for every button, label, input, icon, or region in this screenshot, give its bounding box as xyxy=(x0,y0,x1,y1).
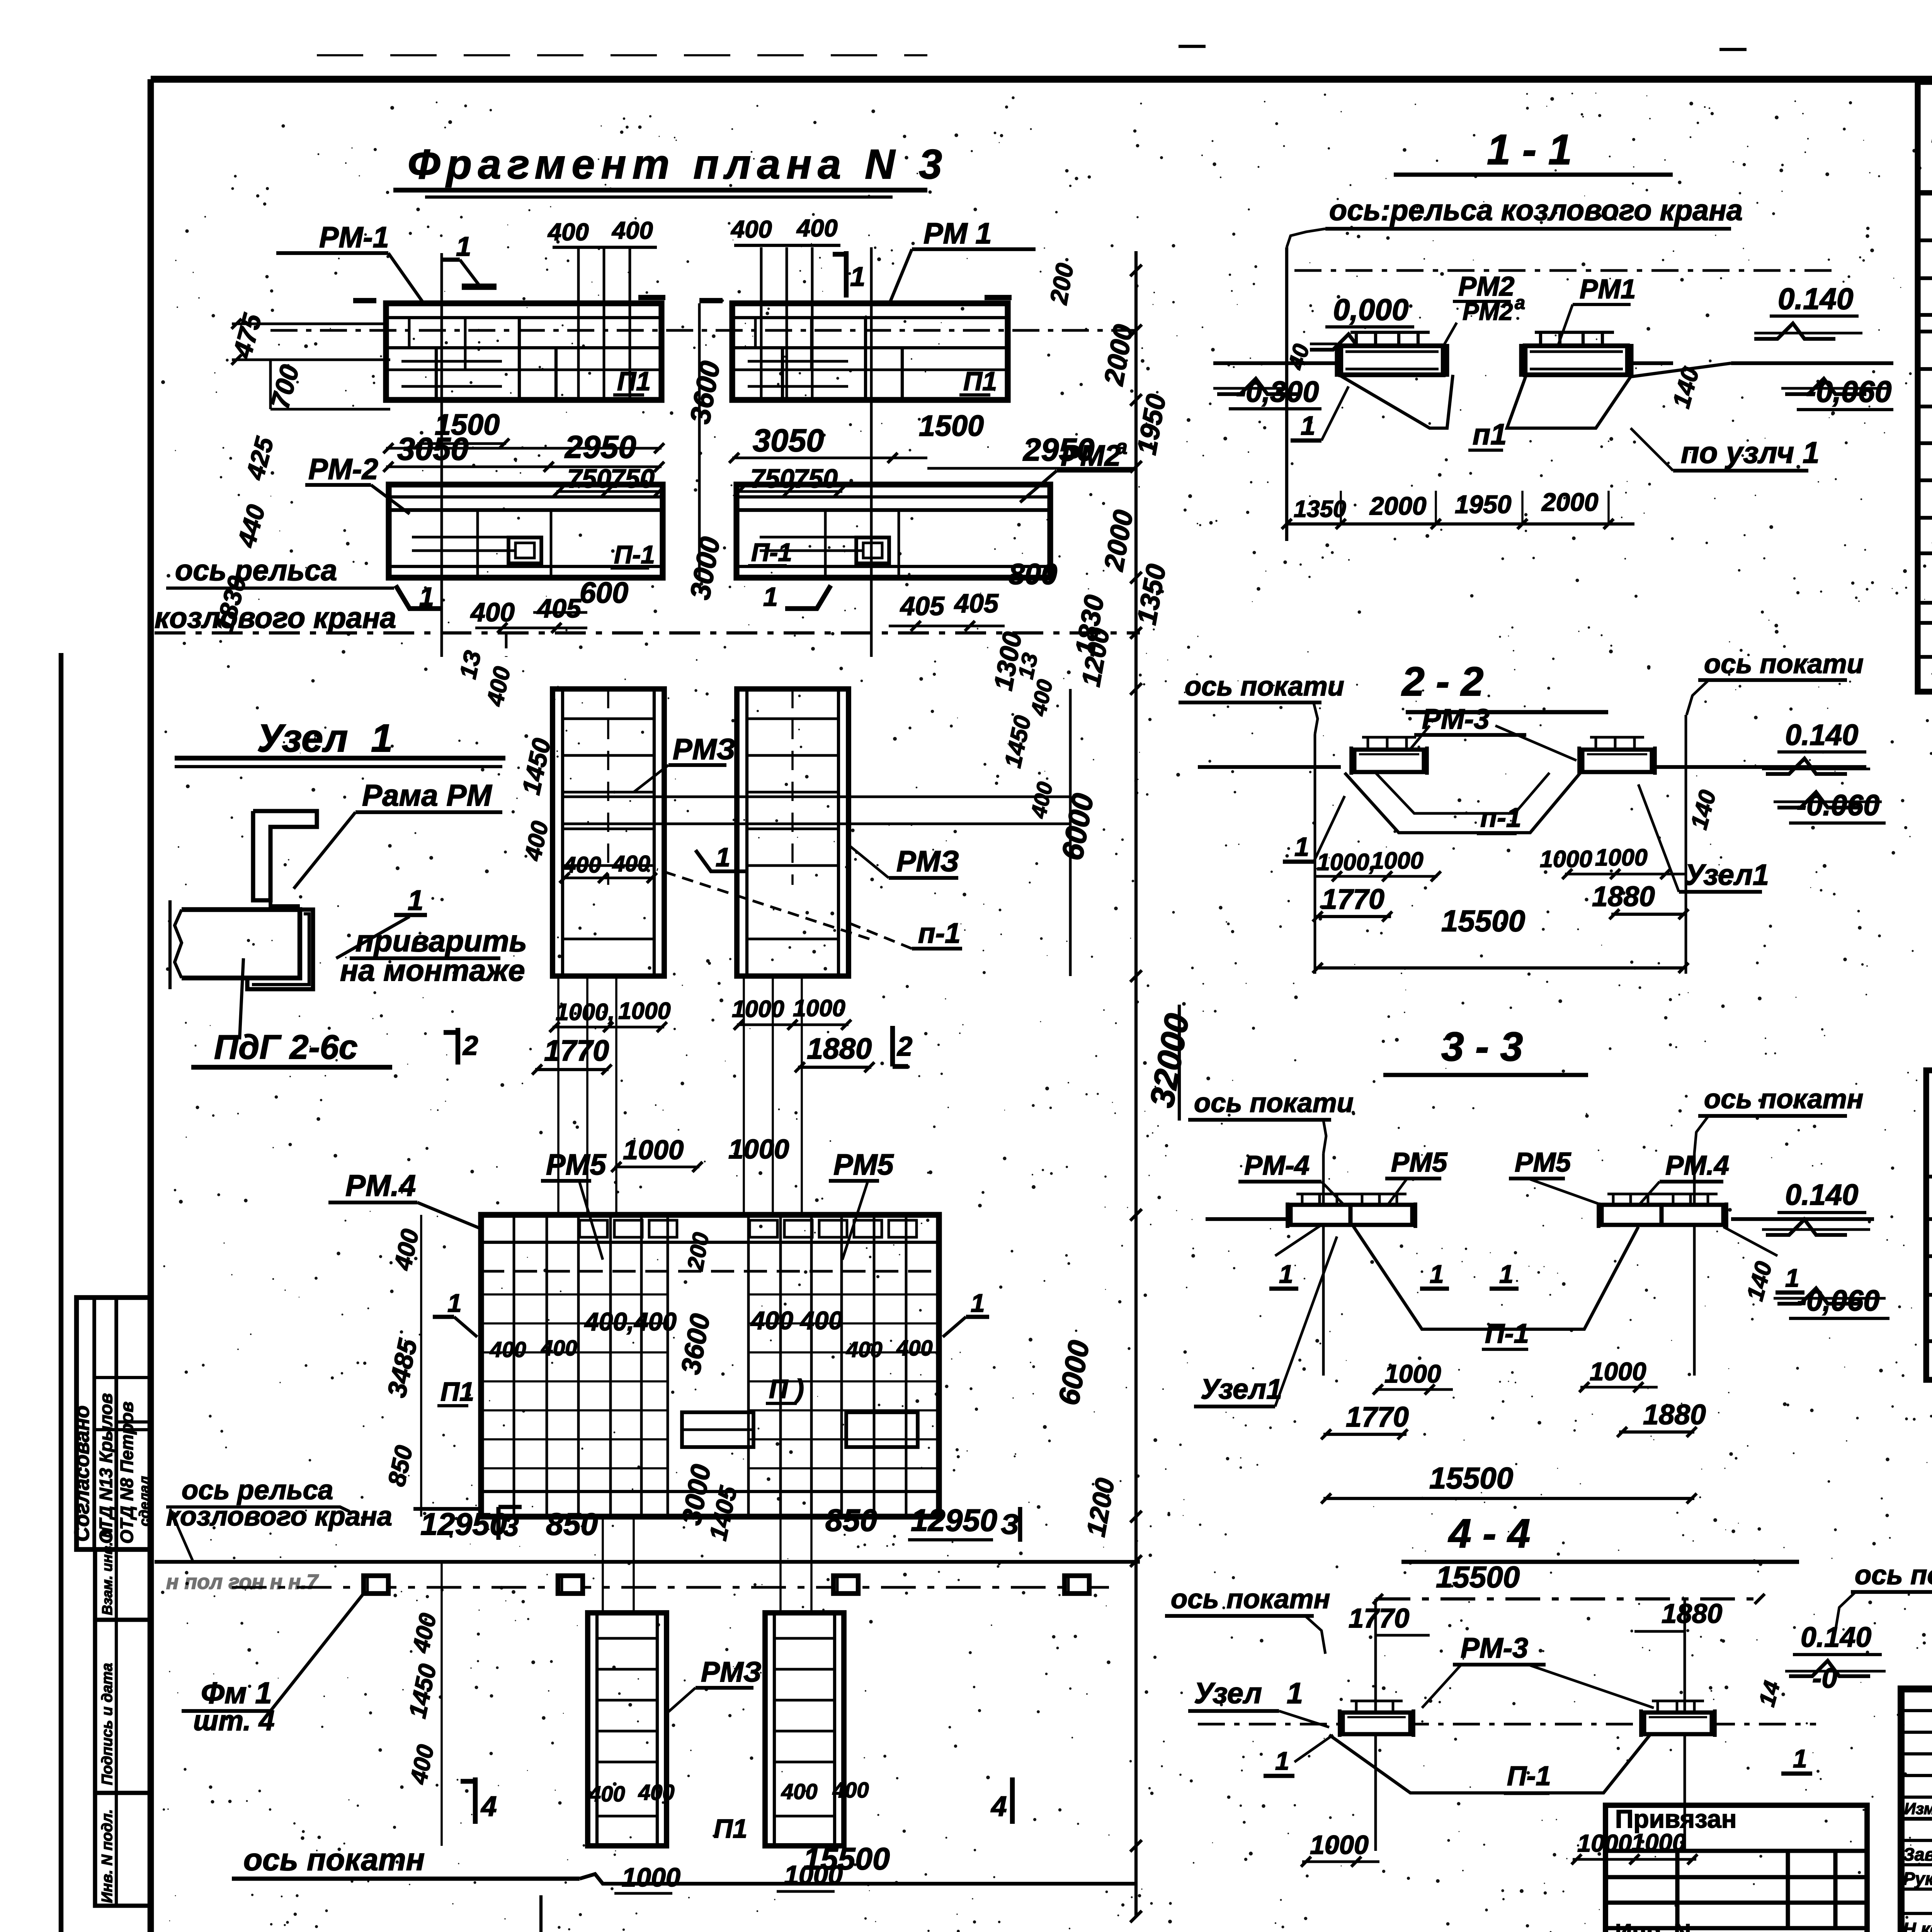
svg-text:РМ2: РМ2 xyxy=(1458,271,1514,301)
1-1 beams xyxy=(1341,346,1443,375)
svg-text:400 400: 400 400 xyxy=(750,1306,843,1335)
middle slab pair РМ3 xyxy=(553,689,664,976)
Узел 1: channel Рама РМ xyxy=(253,811,317,900)
svg-text:1: 1 xyxy=(1275,1747,1289,1775)
svg-text:п-1: п-1 xyxy=(918,917,961,949)
plan row1 left block РМ-1/П1 xyxy=(386,303,662,400)
2-2 axis verticals xyxy=(1314,734,1316,974)
svg-text:ОТД N13 Крылов: ОТД N13 Крылов xyxy=(96,1393,116,1544)
svg-text:на монтаже: на монтаже xyxy=(340,953,525,987)
1-1 bottom dims xyxy=(1287,522,1634,526)
svg-text:РМ1: РМ1 xyxy=(1580,274,1636,304)
svg-text:1000: 1000 xyxy=(1540,846,1592,872)
svg-text:Рама РМ: Рама РМ xyxy=(362,778,492,812)
svg-text:1880: 1880 xyxy=(1662,1598,1722,1629)
svg-text:400: 400 xyxy=(612,851,650,876)
svg-text:15500: 15500 xyxy=(1429,1461,1513,1495)
svg-text:600: 600 xyxy=(580,577,628,609)
svg-text:РМ-2: РМ-2 xyxy=(308,453,378,486)
svg-text:П1: П1 xyxy=(617,367,651,396)
ось рельса axis line + label xyxy=(155,631,1140,634)
vertical 6000 dim xyxy=(1069,689,1072,976)
svg-text:1000,: 1000, xyxy=(556,999,615,1025)
svg-text:Инв. N подл.: Инв. N подл. xyxy=(99,1809,116,1903)
svg-text:РМ-3: РМ-3 xyxy=(1461,1632,1528,1664)
svg-text:1 - 1: 1 - 1 xyxy=(1487,126,1572,173)
svg-text:-0,060: -0,060 xyxy=(1806,374,1891,408)
svg-text:2000: 2000 xyxy=(1369,492,1427,520)
svg-text:2000: 2000 xyxy=(1541,488,1599,516)
svg-text:400: 400 xyxy=(896,1336,933,1360)
svg-text:0.140: 0.140 xyxy=(1801,1621,1871,1653)
svg-text:850: 850 xyxy=(825,1503,877,1538)
svg-text:П-1: П-1 xyxy=(1485,1318,1529,1349)
svg-text:400: 400 xyxy=(730,216,772,243)
svg-text:0.140: 0.140 xyxy=(1785,1179,1858,1211)
svg-text:Узел: Узел xyxy=(257,716,348,760)
rail axis line bottom + anchors ФМ xyxy=(155,1560,1140,1564)
bottom slab pair П1/РМЗ xyxy=(588,1613,667,1846)
4-4 dash-dot level line xyxy=(1198,1723,1816,1726)
svg-text:1000: 1000 xyxy=(1384,1359,1441,1388)
svg-text:РМ2: РМ2 xyxy=(1061,440,1121,472)
svg-text:1000: 1000 xyxy=(728,1134,789,1164)
svg-text:400: 400 xyxy=(638,1780,675,1804)
svg-text:1880: 1880 xyxy=(1592,881,1655,912)
svg-text:1: 1 xyxy=(371,716,393,760)
svg-text:п1: п1 xyxy=(1473,418,1507,451)
2-2 beams xyxy=(1354,750,1424,772)
svg-text:3050: 3050 xyxy=(753,422,824,458)
3-3 pit outline xyxy=(1275,1225,1321,1256)
svg-text:З: З xyxy=(1001,1509,1019,1540)
svg-text:12950: 12950 xyxy=(911,1503,997,1538)
svg-text:-0,300: -0,300 xyxy=(1236,376,1319,408)
svg-text:1: 1 xyxy=(1294,832,1309,862)
svg-text:400: 400 xyxy=(490,1337,526,1362)
svg-text:750: 750 xyxy=(794,464,838,493)
svg-text:П ): П ) xyxy=(769,1374,804,1404)
svg-text:ось по: ось по xyxy=(1855,1560,1932,1590)
svg-text:шт. 4: шт. 4 xyxy=(193,1705,275,1736)
right vertical dimension chain xyxy=(1134,251,1138,1917)
svg-text:П-1: П-1 xyxy=(614,540,655,569)
svg-text:П-1: П-1 xyxy=(1507,1760,1551,1791)
svg-text:1: 1 xyxy=(1793,1744,1807,1773)
svg-text:750: 750 xyxy=(567,464,611,493)
svg-text:1: 1 xyxy=(447,1289,462,1317)
svg-text:н пол гон н н.7: н пол гон н н.7 xyxy=(166,1570,319,1594)
svg-text:750: 750 xyxy=(750,464,794,493)
svg-text:а: а xyxy=(1515,293,1525,313)
svg-text:15500: 15500 xyxy=(803,1842,890,1876)
svg-text:-0.060: -0.060 xyxy=(1797,789,1879,822)
left stamp strip: Подпись и дата box xyxy=(95,1620,151,1793)
section flag 2 (left) xyxy=(456,1028,460,1065)
svg-text:по узлч 1: по узлч 1 xyxy=(1681,435,1820,469)
svg-text:РМЗ: РМЗ xyxy=(673,733,735,766)
svg-text:-0,060: -0,060 xyxy=(1797,1285,1879,1317)
svg-text:РМ5: РМ5 xyxy=(1391,1147,1448,1177)
svg-text:1770: 1770 xyxy=(544,1035,609,1067)
scan artifact dashes top xyxy=(317,54,927,56)
svg-text:4 - 4: 4 - 4 xyxy=(1448,1511,1530,1556)
svg-text:1350: 1350 xyxy=(1294,496,1346,522)
plan row2 right block РМ-2/П-1 xyxy=(736,485,1050,578)
svg-text:сделал: сделал xyxy=(136,1476,152,1526)
svg-text:400: 400 xyxy=(846,1337,883,1362)
svg-text:Фрагмент плана N 3: Фрагмент плана N 3 xyxy=(408,141,948,187)
svg-text:РМ-3: РМ-3 xyxy=(1422,703,1490,735)
svg-text:1: 1 xyxy=(456,231,471,262)
svg-text:ось:рельса козлового крана: ось:рельса козлового крана xyxy=(1329,194,1743,227)
svg-text:1000: 1000 xyxy=(1310,1830,1369,1860)
svg-text:1880: 1880 xyxy=(1643,1399,1706,1430)
row1 400-400 dimension verticals xyxy=(577,247,580,402)
svg-text:1000: 1000 xyxy=(618,998,671,1024)
Узел 1: slab П (rect with break) xyxy=(182,910,300,978)
svg-text:3 - 3: 3 - 3 xyxy=(1441,1024,1523,1070)
4-4 beams xyxy=(1343,1713,1410,1734)
svg-text:400: 400 xyxy=(781,1779,818,1804)
3-3 ground line xyxy=(1206,1217,1294,1221)
svg-text:П1: П1 xyxy=(714,1814,747,1844)
svg-text:-0: -0 xyxy=(1812,1662,1837,1694)
2-2 ground line xyxy=(1198,765,1341,769)
svg-text:Узел1: Узел1 xyxy=(1201,1373,1282,1405)
plan row2 left block РМ-2/П-1 xyxy=(389,485,663,578)
svg-text:1: 1 xyxy=(419,582,434,612)
4-4 axis verticals xyxy=(1374,1599,1377,1851)
svg-text:приварить: приварить xyxy=(355,924,527,958)
svg-text:405: 405 xyxy=(536,594,582,623)
svg-text:Согласовано: Согласовано xyxy=(70,1405,94,1542)
section flag 2 (right) xyxy=(890,1026,895,1066)
svg-text:2: 2 xyxy=(896,1031,912,1061)
svg-text:1770: 1770 xyxy=(1349,1603,1409,1633)
svg-text:1000: 1000 xyxy=(1595,844,1648,871)
svg-text:1: 1 xyxy=(1785,1264,1799,1292)
svg-text:РМ5: РМ5 xyxy=(833,1149,894,1181)
svg-text:ось покати: ось покати xyxy=(1194,1087,1354,1118)
svg-text:РМ.4: РМ.4 xyxy=(345,1168,416,1202)
svg-text:РМ 1: РМ 1 xyxy=(923,218,992,250)
svg-text:2 - 2: 2 - 2 xyxy=(1401,659,1483,704)
svg-text:1: 1 xyxy=(1499,1260,1514,1288)
svg-text:0,000: 0,000 xyxy=(1333,293,1408,327)
svg-text:Н.контр: Н.контр xyxy=(1903,1919,1932,1932)
svg-text:400: 400 xyxy=(796,215,838,242)
svg-text:козлового крана: козлового крана xyxy=(166,1501,392,1531)
svg-text:Узел: Узел xyxy=(1194,1677,1262,1710)
svg-text:3: 3 xyxy=(503,1510,519,1542)
svg-text:405: 405 xyxy=(900,592,945,621)
svg-text:П-1: П-1 xyxy=(751,538,792,566)
svg-text:0.140: 0.140 xyxy=(1785,719,1858,752)
svg-text:П1: П1 xyxy=(440,1377,474,1406)
svg-text:Привязан: Привязан xyxy=(1615,1804,1736,1833)
svg-text:800: 800 xyxy=(1009,558,1057,591)
4-4 pit hexagon xyxy=(1329,1735,1650,1793)
dim 3600 / 3000 between blocks xyxy=(698,303,701,578)
svg-text:п-1: п-1 xyxy=(1480,802,1521,833)
svg-text:ось покатн: ось покатн xyxy=(1704,1083,1863,1114)
svg-text:Узел1: Узел1 xyxy=(1685,859,1769,891)
svg-text:РМ5: РМ5 xyxy=(546,1149,606,1181)
svg-text:1500: 1500 xyxy=(919,410,984,442)
2-2 П-1 hexagon pit xyxy=(1345,773,1580,833)
lower band (РМ-4 row) xyxy=(481,1215,939,1517)
section flag 1 top right xyxy=(844,251,849,298)
svg-text:1: 1 xyxy=(1430,1260,1444,1288)
specification table 1 xyxy=(1918,82,1932,692)
svg-text:РМ.4: РМ.4 xyxy=(1665,1150,1729,1180)
3-3 axis verticals xyxy=(1322,1153,1325,1376)
title block (основная надпись) xyxy=(1901,1689,1932,1932)
svg-text:0.140: 0.140 xyxy=(1778,282,1853,316)
svg-text:а: а xyxy=(1116,435,1128,459)
svg-text:1950: 1950 xyxy=(1455,490,1512,519)
svg-text:ось покати: ось покати xyxy=(1185,671,1344,701)
svg-text:400: 400 xyxy=(541,1336,577,1360)
svg-text:ось рельса: ось рельса xyxy=(175,554,337,587)
svg-text:1: 1 xyxy=(1301,411,1315,440)
svg-text:1: 1 xyxy=(1279,1260,1293,1288)
1-1 pit outline xyxy=(1339,375,1453,428)
svg-text:ось покати: ось покати xyxy=(1704,648,1864,679)
svg-text:4: 4 xyxy=(990,1791,1007,1822)
svg-text:1: 1 xyxy=(850,261,865,292)
svg-text:2: 2 xyxy=(462,1030,478,1061)
svg-text:750: 750 xyxy=(611,464,655,493)
plan row1 right block РМ-1/П1 xyxy=(732,303,1008,400)
svg-text:РМЗ: РМЗ xyxy=(896,845,959,878)
svg-text:1000: 1000 xyxy=(1590,1357,1646,1386)
rail axis dash-dot line through row1 xyxy=(270,329,1136,332)
1-1 dash-dot ground reference xyxy=(1294,269,1835,272)
svg-text:2950: 2950 xyxy=(564,429,636,465)
svg-text:козлового крана: козлового крана xyxy=(155,602,396,634)
svg-text:1000: 1000 xyxy=(1371,847,1423,874)
specification table 2 xyxy=(1926,1070,1932,1380)
svg-text:15500: 15500 xyxy=(1436,1560,1520,1594)
svg-text:РМ-1: РМ-1 xyxy=(319,221,389,254)
svg-text:РМЗ: РМЗ xyxy=(701,1656,762,1688)
svg-text:12950: 12950 xyxy=(420,1507,507,1542)
left stamp strip: Согласовано box xyxy=(77,1298,151,1549)
svg-text:1: 1 xyxy=(1287,1677,1303,1710)
svg-text:400: 400 xyxy=(832,1778,869,1802)
svg-text:РМ2: РМ2 xyxy=(1463,298,1513,325)
horizontal through-lines mid pair xyxy=(563,796,1070,798)
paper left edge xyxy=(59,653,63,1932)
svg-text:1000,: 1000, xyxy=(1317,849,1376,875)
1-1 ground lines xyxy=(1213,361,1339,365)
sheet outer frame xyxy=(151,76,1932,83)
svg-text:ПдГ 2-6с: ПдГ 2-6с xyxy=(214,1028,358,1066)
left stamp strip: Инв N подл box xyxy=(95,1793,151,1906)
svg-text:Зав.отд: Зав.отд xyxy=(1903,1844,1932,1864)
left stamp strip: Взам.инв box xyxy=(95,1549,151,1620)
Привязан box xyxy=(1605,1805,1867,1932)
svg-text:400: 400 xyxy=(547,219,589,246)
svg-text:ось покатн: ось покатн xyxy=(1171,1583,1330,1614)
svg-text:Взам. инв. N: Взам. инв. N xyxy=(99,1527,115,1615)
svg-text:РМ-4: РМ-4 xyxy=(1244,1150,1310,1180)
svg-text:1: 1 xyxy=(763,582,778,612)
svg-text:Подпись и дата: Подпись и дата xyxy=(99,1663,116,1785)
svg-text:850: 850 xyxy=(546,1507,598,1542)
svg-text:1770: 1770 xyxy=(1321,883,1384,915)
svg-text:4: 4 xyxy=(480,1791,497,1822)
svg-text:15500: 15500 xyxy=(1441,904,1525,938)
svg-text:400: 400 xyxy=(470,598,515,627)
connector verticals between bands xyxy=(557,976,560,1215)
section flag 4 xyxy=(473,1777,478,1824)
svg-text:1880: 1880 xyxy=(807,1033,872,1065)
svg-text:1000: 1000 xyxy=(732,996,784,1022)
svg-text:400: 400 xyxy=(611,217,653,244)
svg-text:1770: 1770 xyxy=(1346,1401,1409,1433)
svg-text:1: 1 xyxy=(971,1289,985,1317)
3-3 beam clusters xyxy=(1291,1205,1352,1225)
svg-text:РМ5: РМ5 xyxy=(1515,1147,1571,1177)
section flag 1 bottom left of row2 xyxy=(396,585,442,609)
svg-text:400,400: 400,400 xyxy=(584,1307,677,1336)
svg-text:П1: П1 xyxy=(963,367,997,396)
svg-text:1000: 1000 xyxy=(622,1863,680,1892)
svg-text:1000: 1000 xyxy=(623,1134,684,1165)
svg-text:405: 405 xyxy=(954,589,999,618)
svg-text:1: 1 xyxy=(408,884,423,916)
svg-text:ОТД N8 Петров: ОТД N8 Петров xyxy=(117,1401,137,1544)
svg-text:1: 1 xyxy=(716,843,730,872)
row1 left dims 475 / 700 xyxy=(232,323,386,325)
svg-text:ось покатн: ось покатн xyxy=(243,1842,425,1877)
svg-text:400: 400 xyxy=(588,1782,625,1806)
svg-text:Изм: Изм xyxy=(1904,1799,1932,1818)
svg-text:Рук.гр: Рук.гр xyxy=(1903,1869,1932,1889)
svg-text:Инв. N: Инв. N xyxy=(1615,1919,1691,1932)
